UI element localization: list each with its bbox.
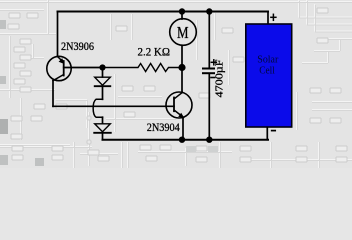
junction dot bottom capacitor bbox=[206, 137, 212, 143]
svg-text:Solar: Solar bbox=[257, 53, 278, 65]
label 2N3906 bbox=[61, 39, 94, 53]
capacitor minus sign bbox=[211, 77, 215, 79]
emitter wire Q2 to bottom rail bbox=[182, 117, 184, 139]
transistor Q1 2N3906 bbox=[47, 56, 71, 106]
node A junction dot bbox=[99, 64, 105, 70]
resistor R1 2.2K zigzag bbox=[103, 64, 183, 72]
svg-text:2.2 KΩ: 2.2 KΩ bbox=[138, 45, 171, 59]
solar cell plus sign bbox=[271, 14, 276, 20]
motor branch wire top bbox=[181, 12, 183, 20]
capacitor C1 bottom wire bbox=[208, 75, 210, 140]
solar cell B1 bbox=[246, 24, 292, 127]
bottom rail wire bbox=[103, 139, 269, 141]
label 4700uF bbox=[214, 60, 226, 98]
capacitor plus sign bbox=[211, 60, 216, 65]
collector wire Q1 to base Q2 bbox=[53, 105, 174, 107]
node B junction dot bbox=[178, 64, 185, 71]
transistor Q2 2N3904 bbox=[166, 92, 192, 118]
wire motor to node B bbox=[181, 45, 183, 67]
wire node B to Q2 collector bbox=[181, 68, 183, 93]
top rail wire bbox=[58, 11, 269, 13]
svg-text:Cell: Cell bbox=[259, 65, 275, 77]
wire hop over collector wire bbox=[93, 99, 102, 117]
motor M1 bbox=[170, 19, 197, 46]
label 2N3904 bbox=[147, 120, 180, 134]
svg-text:4700µF: 4700µF bbox=[214, 60, 226, 98]
solar cell riser top bbox=[267, 12, 269, 25]
junction dot top capacitor bbox=[206, 8, 212, 14]
junction dot top motor bbox=[179, 8, 185, 14]
capacitor C1 plates bbox=[203, 69, 214, 74]
diode D1 bbox=[95, 68, 111, 100]
diode D2 bbox=[94, 117, 111, 140]
solar cell minus sign bbox=[272, 130, 276, 132]
capacitor C1 top wire bbox=[208, 12, 210, 69]
svg-text:2N3906: 2N3906 bbox=[61, 39, 94, 53]
label 2.2 Kohm bbox=[138, 45, 171, 59]
base wire Q1 to node A bbox=[64, 67, 103, 69]
svg-text:2N3904: 2N3904 bbox=[147, 120, 180, 134]
left emitter wire bbox=[57, 12, 59, 57]
svg-text:M: M bbox=[177, 23, 189, 42]
solar cell riser bottom bbox=[266, 127, 268, 139]
junction dot bottom emitter bbox=[179, 137, 185, 143]
